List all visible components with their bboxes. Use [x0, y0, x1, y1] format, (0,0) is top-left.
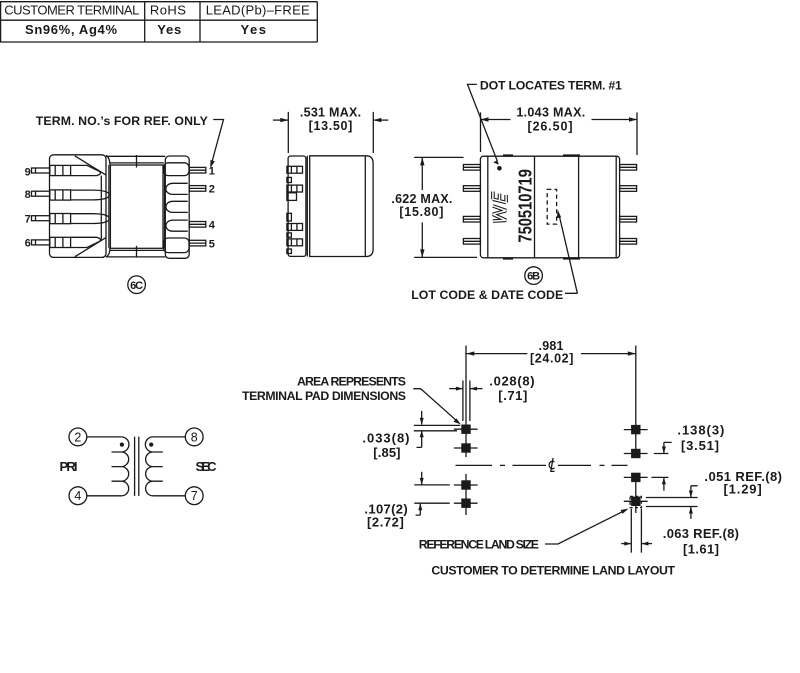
right column extension line — [635, 346, 637, 514]
bottom view: center window band — [106, 156, 165, 257]
wire pin7 to secondary — [153, 495, 185, 497]
pin 2 lead — [189, 186, 206, 192]
svg-text:6C: 6C — [130, 280, 143, 292]
flange pin row2 — [287, 185, 303, 192]
terminal bullet row3 — [71, 214, 110, 224]
left pad row4 — [454, 499, 478, 508]
svg-text:Sn96%, Ag4%: Sn96%, Ag4% — [25, 22, 117, 37]
svg-text:TERM. NO.’s FOR REF. ONLY: TERM. NO.’s FOR REF. ONLY — [36, 114, 208, 128]
svg-text:1.043 MAX.: 1.043 MAX. — [516, 106, 585, 120]
reference land height lines — [646, 498, 698, 507]
top view inner edge lines — [488, 156, 616, 258]
leader reference land — [545, 509, 629, 545]
svg-text:750510719: 750510719 — [515, 169, 536, 243]
right block terminal shape 4 — [166, 220, 188, 231]
pitch extension lines left — [414, 485, 449, 503]
pin 8 channel — [50, 190, 71, 200]
dim arrows 1.043 — [481, 117, 638, 121]
right pad row4 — [624, 497, 648, 506]
svg-text:REFERENCE LAND SIZE: REFERENCE LAND SIZE — [419, 538, 539, 552]
top view pin 2 — [463, 186, 480, 192]
svg-text:DOT LOCATES TERM. #1: DOT LOCATES TERM. #1 — [480, 79, 622, 93]
svg-text:[3.51]: [3.51] — [681, 438, 719, 453]
left pad row1 — [454, 425, 478, 434]
right block terminal shape 2 — [166, 183, 188, 194]
svg-text:7: 7 — [191, 489, 198, 503]
svg-text:1: 1 — [209, 165, 215, 177]
wire pin2 to primary — [87, 436, 122, 438]
svg-text:[.85]: [.85] — [373, 445, 400, 460]
svg-text:[13.50]: [13.50] — [309, 119, 353, 133]
side view bobbin flange — [288, 156, 306, 256]
terminal flag row1 — [71, 165, 101, 175]
primary winding taps — [112, 452, 122, 481]
pad width arrows — [449, 387, 482, 391]
pad height extension lines — [414, 425, 461, 430]
view label 6B — [525, 267, 543, 285]
terminal 1 dot — [497, 166, 502, 171]
secondary winding taps — [153, 452, 163, 481]
view label 6C — [128, 276, 146, 294]
wire pin4 to primary — [87, 495, 122, 497]
svg-text:LOT CODE & DATE CODE: LOT CODE & DATE CODE — [411, 288, 563, 302]
dim lines .622 — [414, 157, 477, 257]
pin 9 lead — [32, 168, 50, 173]
right pad row1 — [624, 425, 648, 434]
svg-text:6: 6 — [25, 238, 31, 250]
right block terminal shape 5 — [164, 238, 189, 253]
flange tooth 2 — [287, 193, 297, 201]
pin 6 lead — [32, 240, 50, 245]
pad height arrows — [417, 411, 424, 448]
svg-text:2: 2 — [74, 430, 81, 444]
flange tooth 1 — [287, 177, 292, 182]
top view pin 8 — [620, 186, 637, 192]
svg-text:[.71]: [.71] — [498, 388, 527, 403]
core gap tick bottom — [136, 246, 138, 258]
terminal flag row4 — [71, 237, 101, 247]
centerline — [456, 464, 628, 466]
core gap tick top — [136, 155, 138, 168]
svg-text:LEAD(Pb)–FREE: LEAD(Pb)–FREE — [206, 3, 310, 18]
svg-text:CUSTOMER TERMINAL: CUSTOMER TERMINAL — [4, 3, 139, 18]
svg-text:8: 8 — [25, 189, 31, 201]
pad width extension lines — [463, 381, 470, 422]
svg-text:.033(8): .033(8) — [362, 431, 409, 446]
pitch arrows left — [416, 472, 424, 515]
top view pin 7 — [620, 216, 637, 222]
top view pin 9 — [620, 165, 637, 171]
dim line .981 — [466, 353, 636, 355]
right pad row3 — [624, 473, 648, 482]
right pad row2 — [624, 449, 648, 458]
svg-text:.063 REF.(8): .063 REF.(8) — [663, 526, 739, 541]
flange tooth 3 — [287, 213, 292, 221]
left pad row2 — [454, 443, 478, 452]
bottom view: left bobbin block — [50, 155, 110, 258]
dim arrow right .531 — [373, 118, 388, 122]
WE logo — [493, 192, 506, 222]
row pitch ticks right — [652, 454, 669, 478]
svg-text:TERMINAL PAD DIMENSIONS: TERMINAL PAD DIMENSIONS — [242, 389, 406, 403]
top view edge pad marks — [503, 156, 580, 259]
top view pin 1 — [463, 165, 480, 171]
primary dot — [120, 443, 124, 447]
reference land width arrows — [621, 542, 652, 546]
side view body — [307, 156, 373, 257]
top view pin 4 — [463, 216, 480, 222]
flange pin row3 — [287, 224, 303, 231]
schematic pin 2 circle — [69, 428, 87, 446]
dim extension lines .531 — [288, 112, 373, 153]
svg-text:.028(8): .028(8) — [489, 374, 534, 389]
lot code leader — [557, 210, 578, 294]
dim arrows .981 — [466, 351, 636, 355]
schematic pin 4 circle — [69, 487, 87, 505]
terminal bullet row2 — [71, 190, 110, 200]
dim lines 1.043 — [481, 112, 638, 155]
pin 4 lead — [189, 222, 206, 228]
svg-text:9: 9 — [25, 167, 31, 179]
reference land width lines — [631, 509, 641, 553]
svg-text:[15.80]: [15.80] — [399, 205, 443, 219]
table — [0, 2, 317, 42]
svg-text:7: 7 — [25, 213, 31, 225]
dim arrows .622 — [420, 157, 424, 257]
pin 5 lead — [189, 240, 206, 246]
svg-text:.531 MAX.: .531 MAX. — [300, 105, 361, 119]
svg-text:PRI: PRI — [60, 459, 78, 474]
pin 6 channel — [50, 237, 71, 247]
top view pin 5 — [463, 239, 480, 245]
svg-text:5: 5 — [209, 238, 215, 250]
secondary winding — [145, 437, 153, 496]
svg-text:6B: 6B — [527, 271, 540, 283]
flange tooth 5 — [287, 249, 292, 254]
svg-text:.622 MAX.: .622 MAX. — [391, 192, 452, 206]
schematic pin 8 circle — [185, 428, 203, 446]
svg-text:8: 8 — [191, 430, 198, 444]
svg-text:4: 4 — [209, 220, 216, 232]
centerline symbol — [549, 458, 554, 471]
top view body — [480, 156, 619, 258]
svg-text:AREA REPRESENTS: AREA REPRESENTS — [297, 375, 406, 389]
right block terminal shape 3 — [166, 201, 188, 212]
leader to dot — [468, 84, 499, 164]
right block terminal shape 1 — [164, 163, 189, 176]
svg-text:4: 4 — [74, 489, 81, 503]
left pad row3 — [454, 480, 478, 489]
svg-text:[24.02]: [24.02] — [530, 351, 574, 365]
pin 1 lead — [189, 167, 206, 173]
lot code dashed box — [547, 189, 556, 224]
svg-text:[2.72]: [2.72] — [367, 515, 404, 530]
svg-text:CUSTOMER TO DETERMINE LAND LAY: CUSTOMER TO DETERMINE LAND LAYOUT — [431, 564, 675, 578]
pin 8 lead — [32, 191, 50, 196]
top view pin 6 — [620, 239, 637, 245]
wire pin8 to secondary — [153, 436, 185, 438]
flange pin row4 — [287, 239, 303, 246]
core lines — [135, 437, 139, 496]
svg-text:2: 2 — [209, 184, 215, 196]
bottom view: right bobbin block — [165, 156, 189, 258]
flange tooth 4 — [287, 233, 292, 237]
svg-text:RoHS: RoHS — [150, 3, 186, 18]
pin 9 channel — [50, 165, 71, 175]
pin 7 lead — [32, 216, 50, 221]
leader area represents — [413, 389, 461, 425]
flange pin row1 — [287, 166, 303, 173]
svg-text:[1.29]: [1.29] — [724, 482, 762, 497]
reference land height arrows — [689, 486, 698, 519]
svg-text:SEC: SEC — [196, 459, 218, 474]
row pitch arrows — [662, 442, 672, 490]
primary winding — [121, 437, 129, 496]
svg-text:Yes: Yes — [240, 22, 266, 37]
dim arrow left .531 — [273, 118, 288, 122]
svg-text:.138(3): .138(3) — [677, 423, 724, 438]
schematic pin 7 circle — [185, 487, 203, 505]
svg-text:[26.50]: [26.50] — [528, 119, 573, 133]
leader to pin 1 — [210, 120, 223, 169]
pin 7 channel — [50, 214, 71, 224]
reference land dashed box — [630, 496, 641, 507]
svg-text:Yes: Yes — [157, 22, 181, 37]
svg-text:[1.61]: [1.61] — [683, 542, 719, 557]
left column extension line — [465, 346, 467, 516]
secondary dot — [149, 443, 153, 447]
